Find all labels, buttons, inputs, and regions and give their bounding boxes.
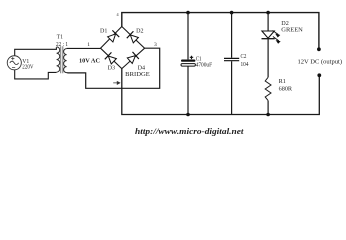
diode D3 (bottom vertex to left vertex) (105, 52, 117, 64)
LED D2 triangle (262, 31, 274, 38)
wire: top positive rail from bridge to output (122, 13, 319, 49)
transformer T1 primary winding (57, 47, 60, 72)
pin marker arrow at bridge bottom (113, 82, 120, 85)
svg-text:R1: R1 (279, 78, 286, 85)
svg-text:10V AC: 10V AC (79, 58, 100, 65)
svg-text:3: 3 (154, 42, 157, 48)
resistor R1 zigzag (265, 77, 271, 100)
transformer T1 core (61, 46, 63, 73)
wire: V1 bottom to transformer primary bottom (15, 70, 57, 79)
node dot: output return terminal (317, 73, 321, 77)
polarity plus sign of C1 (190, 56, 193, 59)
svg-text:D2: D2 (136, 28, 143, 34)
svg-text:104: 104 (241, 61, 249, 68)
node dot: R1 bottom junction (266, 113, 270, 117)
svg-text:GREEN: GREEN (281, 27, 303, 33)
diode D4 (bottom vertex to right vertex) (127, 52, 139, 64)
svg-text:T1: T1 (57, 34, 63, 41)
transformer T1 secondary winding (64, 49, 67, 73)
bridge rectifier diamond (101, 27, 145, 69)
svg-text:12V DC (output): 12V DC (output) (298, 59, 343, 66)
wire: secondary top to bridge left vertex (node 1) (67, 47, 101, 49)
LED D2 cathode bar (262, 38, 275, 40)
capacitor C1 negative plate (181, 64, 195, 67)
LED D2 emission arrows (273, 31, 280, 37)
LED D2 top lead (267, 13, 269, 31)
capacitor C2 leads (231, 13, 233, 115)
svg-text:D3: D3 (108, 66, 115, 72)
svg-text:22 : 1: 22 : 1 (56, 41, 68, 48)
node dot: C1 top junction (186, 11, 190, 15)
node dot: C2 top junction (230, 11, 234, 15)
wire: bottom return rail from bridge to output (122, 69, 319, 115)
AC voltage source V1 (7, 56, 21, 70)
svg-text:D1: D1 (100, 29, 107, 35)
diode D1 (left vertex to top vertex) (107, 30, 119, 42)
capacitor C1 bottom lead (187, 66, 189, 114)
svg-text:BRIDGE: BRIDGE (125, 71, 150, 78)
svg-text:220V: 220V (22, 64, 34, 71)
wire: secondary bottom to bridge right vertex (node 3) (67, 48, 160, 88)
svg-text:http://www.micro-digital.net: http://www.micro-digital.net (135, 127, 244, 136)
capacitor C2 plates (224, 58, 239, 60)
node dot: LED D2 top junction (266, 11, 270, 15)
svg-text:680R: 680R (279, 85, 293, 92)
capacitor C1 top lead (187, 13, 189, 60)
svg-text:1: 1 (87, 42, 90, 48)
wire: V1 top to transformer primary top (15, 47, 57, 56)
svg-text:4700uF: 4700uF (196, 62, 213, 68)
svg-text:C2: C2 (241, 54, 247, 60)
svg-text:4: 4 (117, 12, 120, 17)
wire: LED cathode to resistor R1 (267, 39, 269, 78)
node dot: C1 bottom junction (186, 113, 190, 117)
svg-text:D2: D2 (281, 21, 289, 27)
wire: R1 to bottom rail (267, 101, 269, 115)
capacitor C1 positive plate (181, 60, 195, 62)
node dot: +12V output terminal (317, 47, 321, 51)
diode D2 (right vertex to top vertex) (127, 31, 139, 43)
